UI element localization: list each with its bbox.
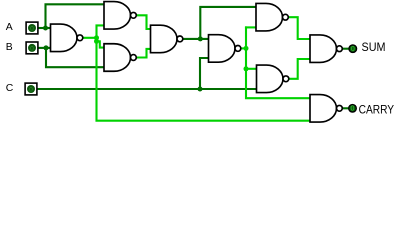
svg-text:SUM: SUM [362,40,386,54]
input pin A [26,22,38,34]
nand-gate U4 [151,25,183,53]
wire U8 output to SUM pin [344,48,349,50]
wire U1 output [83,37,97,39]
nand-gate U9 [310,95,342,123]
wire U1 jog to U3 upper input [97,41,105,47]
output pin CARRY [349,105,357,113]
wire U1 output riser up to U2 lower input [97,25,105,37]
node A junction [43,26,48,31]
svg-text:CARRY: CARRY [359,103,395,117]
nand-gate U2 [104,2,136,30]
svg-text:B: B [6,42,13,53]
node U5 output junction [244,46,249,51]
svg-text:0: 0 [351,106,355,113]
node B junction [44,45,49,50]
output pin SUM [349,45,357,53]
node U1 output junction [94,35,99,40]
svg-text:0: 0 [29,87,33,94]
nand-gate U5 [209,35,241,63]
wire U5 branch to U7 upper input [246,68,257,70]
wire U7 output to U8 lower input [287,59,310,79]
wire U3 output to U4 lower input [137,49,151,58]
svg-text:0: 0 [30,45,34,52]
wire U6 output to U8 upper input [289,17,311,39]
nand-gate U3 [104,44,136,72]
nand-gate U7 [257,65,289,93]
nand-gate U8 [310,35,342,63]
wire A pin to gate U1 with branch to U2 [38,27,51,29]
nand-gate U1 [51,24,83,52]
wire A riser to U2 top input [46,4,105,28]
svg-text:0: 0 [351,46,355,53]
wire U5 output [241,47,246,49]
node C junction [198,87,203,92]
wire U2 output to U4 upper input [137,15,151,29]
node U4 output junction [198,36,203,41]
input pin C [25,83,37,95]
svg-text:A: A [6,22,13,33]
node U1 jog junction [94,39,99,44]
wire C riser to U5 lower input [200,58,209,89]
wire U5 riser top to U6 lower input [246,26,256,28]
wire U4 output riser to U6 upper input [200,7,256,39]
wire U5 riser U6 to U9 [246,27,310,98]
svg-text:0: 0 [30,26,34,33]
wire U9 output to CARRY pin [341,107,348,109]
wire C pin to U7 lower input [37,88,258,90]
wire U4 output to U5 upper input [183,38,209,40]
wire B riser to U3 lower input [46,48,104,67]
svg-text:C: C [6,83,14,94]
input pin B [26,42,38,54]
wire B pin to gate U1 [38,47,51,49]
node U5 to U7 junction [244,66,249,71]
nand-gate U6 [256,3,288,31]
wire U1 output riser down to U9 lower input [97,38,311,121]
